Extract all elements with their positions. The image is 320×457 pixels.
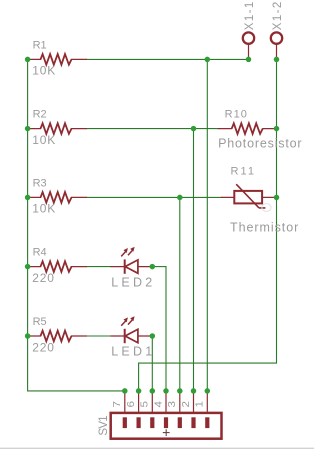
- svg-text:R3: R3: [33, 177, 47, 189]
- svg-text:R11: R11: [231, 165, 255, 177]
- svg-text:R5: R5: [33, 316, 47, 328]
- svg-text:220: 220: [32, 340, 54, 354]
- svg-text:6: 6: [126, 400, 137, 407]
- svg-text:1: 1: [195, 400, 206, 407]
- svg-text:R4: R4: [33, 247, 47, 259]
- svg-text:5: 5: [140, 400, 151, 407]
- svg-text:4: 4: [153, 400, 164, 407]
- svg-text:Thermistor: Thermistor: [230, 221, 298, 235]
- svg-text:2: 2: [181, 400, 192, 407]
- svg-text:Photoresistor: Photoresistor: [218, 137, 302, 151]
- svg-text:SV1: SV1: [98, 415, 110, 435]
- svg-text:7: 7: [112, 400, 123, 407]
- svg-text:X1-2: X1-2: [272, 2, 284, 31]
- svg-text:10K: 10K: [32, 64, 55, 78]
- svg-text:X1-1: X1-1: [244, 2, 256, 30]
- svg-text:R2: R2: [33, 109, 47, 121]
- svg-text:220: 220: [32, 271, 54, 285]
- svg-text:10K: 10K: [32, 133, 55, 147]
- svg-text:R10: R10: [225, 109, 247, 121]
- svg-text:R1: R1: [33, 39, 47, 51]
- svg-text:3: 3: [167, 400, 178, 407]
- svg-text:10K: 10K: [32, 202, 55, 216]
